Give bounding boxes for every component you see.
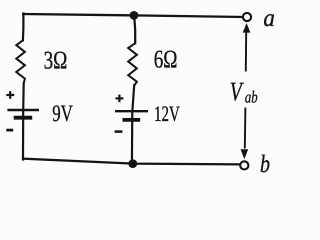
battery 9V plus sign	[6, 91, 14, 99]
svg-text:12V: 12V	[154, 101, 180, 126]
battery 9V short thick negative plate	[14, 116, 33, 120]
battery 9V long positive plate	[7, 109, 39, 111]
svg-text:b: b	[260, 151, 270, 175]
wire bottom rail	[23, 159, 240, 165]
battery 12V short thick negative plate	[123, 118, 141, 122]
svg-text:9V: 9V	[52, 101, 73, 127]
arrow up toward terminal a	[243, 23, 251, 72]
resistor 3-ohm zigzag	[16, 40, 25, 83]
arrow down toward terminal b	[241, 108, 249, 160]
wire left rail lower segment (through battery)	[22, 83, 25, 159]
wire top rail	[23, 14, 243, 17]
node top junction dot	[130, 11, 139, 20]
battery 12V plus sign	[116, 95, 124, 103]
wire middle rail upper segment	[134, 16, 135, 44]
resistor 6-ohm zigzag	[128, 43, 137, 85]
terminal b open circle	[240, 161, 248, 169]
node bottom junction dot	[128, 159, 137, 168]
wire left rail upper segment	[22, 14, 25, 41]
svg-text:6Ω: 6Ω	[154, 45, 178, 74]
battery 9V minus sign	[6, 129, 13, 132]
terminal a open circle	[243, 13, 251, 21]
battery 12V long positive plate	[115, 110, 148, 112]
battery 12V minus sign	[115, 130, 123, 133]
wire middle rail lower segment (through battery)	[132, 85, 134, 163]
svg-text:V: V	[230, 77, 245, 107]
svg-text:ab: ab	[245, 87, 258, 106]
svg-text:a: a	[263, 5, 275, 32]
svg-text:3Ω: 3Ω	[44, 45, 68, 74]
label Vab	[230, 77, 258, 107]
